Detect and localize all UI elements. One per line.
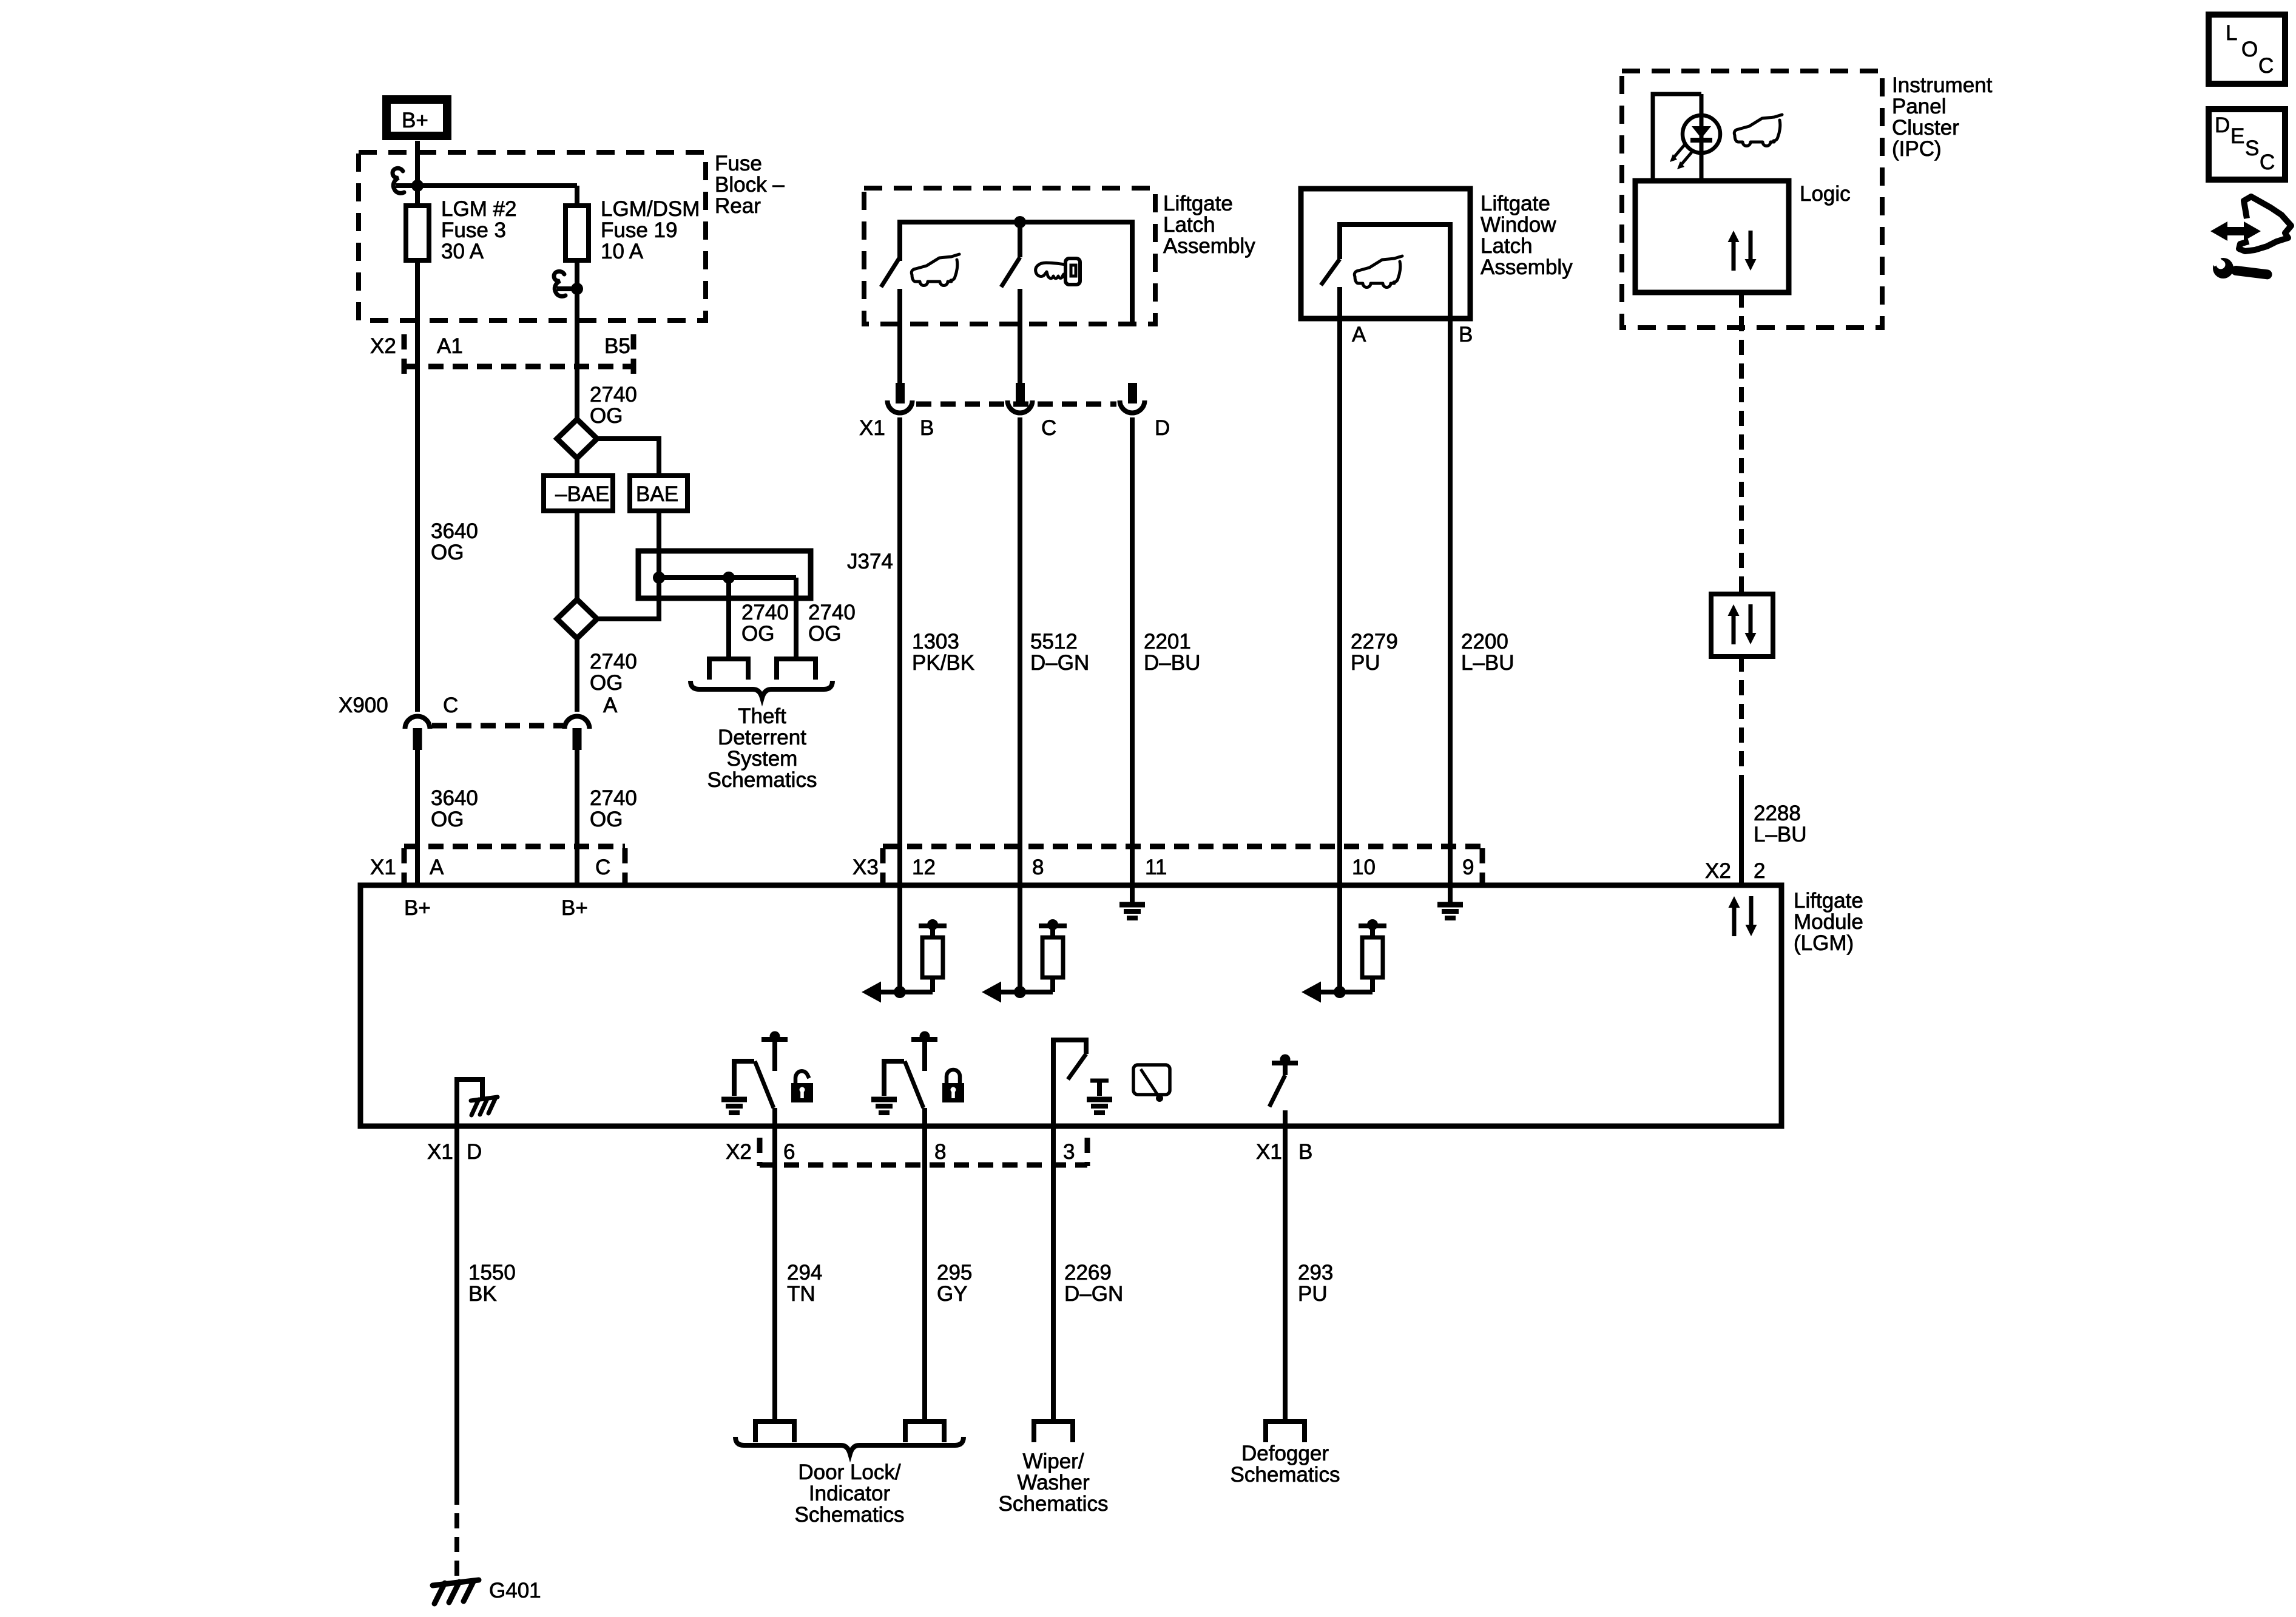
LED indicator wire [1700,94,1704,181]
svg-text:Rear: Rear [715,194,761,218]
padlock open icon [791,1071,813,1102]
DESC icon box [2209,109,2285,180]
wire 295 GY [922,1126,927,1422]
svg-text:Latch: Latch [1481,234,1533,258]
svg-text:C: C [1041,416,1056,440]
latch male blade D [1128,383,1137,403]
hatched chassis ground internal [471,1097,498,1115]
X3 dash separator right [1480,848,1485,883]
wire pin 9 internal ground stub [1448,885,1453,902]
svg-text:TN: TN [787,1282,815,1306]
svg-text:Indicator: Indicator [809,1482,891,1505]
wire fuse 19 vertical [575,186,579,320]
wire 2279 PU [1337,319,1342,885]
svg-text:2: 2 [1754,859,1765,883]
J374 internal bus [659,575,796,580]
splice S2 diamond [557,599,597,638]
svg-text:D: D [2215,113,2230,137]
wire 2200 L-BU [1448,319,1453,885]
internal ground path at pin D [457,1079,482,1126]
svg-text:PU: PU [1298,1282,1328,1306]
window switch lower contact wire [1337,287,1342,319]
svg-text:Fuse 3: Fuse 3 [441,218,506,242]
svg-text:C: C [595,856,610,879]
svg-text:L–BU: L–BU [1754,823,1807,846]
BAE box [630,476,687,511]
tap wire to fuse 19 [396,183,577,188]
svg-text:2200: 2200 [1461,630,1508,653]
svg-text:B: B [1298,1140,1312,1164]
lock switch common wire [922,1108,927,1126]
car icon latch [911,254,959,286]
svg-text:Module: Module [1794,910,1863,934]
wire through fuse 3 [415,186,420,320]
wiper park switch blade [1068,1054,1086,1079]
X2 bottom dash separator right [1085,1138,1090,1166]
wire pin 8 internal [1018,885,1022,992]
svg-text:B: B [1459,323,1473,346]
wiper park ground contact [1090,1079,1109,1083]
svg-text:293: 293 [1298,1261,1333,1284]
svg-text:3640: 3640 [431,786,478,810]
svg-text:A: A [603,694,618,717]
wire pin 11 internal ground stub [1130,885,1135,902]
latch female cup D [1120,400,1145,413]
terminator 295 [905,1422,944,1442]
wiper park switch hook [1053,1040,1086,1126]
svg-text:X3: X3 [853,856,879,879]
tap stub to fuse 19 wire [557,286,577,291]
svg-text:(IPC): (IPC) [1892,137,1942,161]
wire 5512 D-GN [1018,417,1022,885]
wire -BAE to splice S2 [575,511,579,601]
svg-text:Washer: Washer [1017,1471,1090,1494]
svg-text:Deterrent: Deterrent [718,726,806,749]
logic up/down arrows [1728,231,1757,271]
svg-text:Schematics: Schematics [707,768,817,792]
svg-text:BK: BK [468,1282,497,1306]
driver channel pin 10 [1302,919,1386,1003]
wire 2740 OG X900 to LGM X1-C [575,748,579,885]
X1 dash separator left [402,848,407,883]
svg-text:X1: X1 [859,416,885,440]
wrench icon [2230,265,2272,280]
unlock switch common wire [772,1108,777,1126]
svg-text:X2: X2 [370,334,396,358]
svg-text:OG: OG [741,622,774,646]
svg-text:(LGM): (LGM) [1794,931,1854,955]
-BAE box [544,476,613,511]
svg-text:Defogger: Defogger [1241,1442,1329,1465]
liftgate module LGM box [360,885,1781,1126]
wire 2740 OG drop 2 from J374 [794,578,799,659]
terminator 2269 [1034,1422,1073,1442]
svg-text:2740: 2740 [590,650,637,673]
diagnostic double arrow [2210,221,2261,241]
svg-text:Schematics: Schematics [999,1492,1109,1516]
wire pin 12 internal [897,885,902,992]
LED cathode bar [1690,138,1712,143]
wire 3640 OG from fuse 3 to X900 [415,320,420,712]
diagnostic outline icon [2239,197,2291,251]
terminator to theft deterrent 2 [777,659,815,680]
wire 1550 dashed to G401 [454,1490,459,1581]
X2 connector dashed line [404,364,633,370]
wire pin 10 internal [1337,885,1342,992]
svg-text:1303: 1303 [912,630,959,653]
wire 293 PU [1283,1126,1288,1422]
wire 2201 D-BU [1130,417,1135,885]
svg-text:9: 9 [1462,856,1474,879]
svg-text:Instrument: Instrument [1892,73,1993,97]
svg-text:B5: B5 [604,334,630,358]
LED light arrows [1674,145,1684,157]
latch internal bus [900,222,1132,324]
car icon window latch [1354,256,1402,288]
key cylinder switch blade [1001,257,1020,287]
serial data box [1711,594,1773,657]
svg-text:E: E [2230,124,2244,148]
wire S1 right branch to BAE [597,439,659,476]
bus tap hook below fuse 19 [554,271,566,296]
svg-text:Wiper/: Wiper/ [1022,1450,1084,1473]
LED diode triangle [1692,126,1711,138]
svg-text:L: L [2226,21,2237,45]
driver channel pin 12 [862,919,947,1003]
X900 female cup C [405,716,430,729]
svg-text:Latch: Latch [1163,213,1215,237]
unlock switch supply contact [761,1037,788,1042]
svg-text:10: 10 [1352,856,1376,879]
svg-text:11: 11 [1145,856,1167,879]
bus tap hook at fuse 3 feed [393,168,404,193]
svg-text:Theft: Theft [738,704,786,728]
junction J374 left [653,572,665,584]
svg-text:1550: 1550 [468,1261,516,1284]
svg-text:B+: B+ [404,896,431,920]
svg-text:2288: 2288 [1754,802,1801,825]
key cylinder switch contact [1018,222,1022,257]
X900 female cup A [565,716,590,729]
padlock closed icon [942,1070,964,1102]
latch male blade B [896,383,905,403]
ground G401 [433,1580,479,1604]
X2 bottom dash separator left [757,1138,763,1166]
serial data wire dashed upper [1739,292,1744,594]
liftgate latch assembly dashed box [864,188,1155,324]
svg-text:Window: Window [1481,213,1556,237]
key icon [1036,258,1080,285]
LED circle [1683,115,1720,153]
svg-text:30 A: 30 A [441,240,484,263]
wire 2740 OG drop 1 from J374 [726,578,731,659]
latch connector dashed line [916,402,1116,407]
svg-text:C: C [2258,54,2274,78]
wire 1303 PK/BK [897,417,902,885]
svg-text:X1: X1 [370,856,396,879]
ground pin 11 [1119,905,1145,918]
svg-text:2279: 2279 [1351,630,1398,653]
window latch inner frame [1340,224,1450,319]
liftgate window latch assembly box [1301,189,1470,319]
J374 splice pack box [638,551,811,598]
svg-text:B: B [920,416,934,440]
LED indicator frame [1653,94,1701,181]
svg-text:BAE: BAE [636,482,678,506]
svg-text:S: S [2245,137,2259,160]
svg-text:D–GN: D–GN [1030,651,1089,675]
logic box [1635,181,1789,292]
X3 dashed line [883,844,1482,849]
svg-text:LGM/DSM: LGM/DSM [601,197,700,221]
X2 dash separator left [402,334,407,375]
svg-text:2740: 2740 [590,383,637,407]
svg-text:X1: X1 [427,1140,453,1164]
svg-text:12: 12 [912,856,936,879]
svg-text:LGM #2: LGM #2 [441,197,517,221]
svg-text:Schematics: Schematics [1231,1463,1340,1487]
terminator 293 [1266,1422,1305,1442]
svg-text:2269: 2269 [1064,1261,1112,1284]
svg-text:D: D [467,1140,482,1164]
fuse LGM/DSM Fuse 19 10 A [566,206,589,260]
terminator to theft deterrent 1 [709,659,748,680]
svg-text:2201: 2201 [1144,630,1191,653]
wire 2288 L-BU [1739,784,1744,885]
svg-text:10 A: 10 A [601,240,644,263]
unlock switch blade [755,1061,774,1108]
wire 2740 OG from fuse 19 to splice [575,320,579,420]
lock switch ground contact [884,1061,904,1096]
key switch lower contact wire [1018,289,1022,384]
svg-text:PK/BK: PK/BK [912,651,974,675]
svg-text:O: O [2241,38,2258,61]
svg-text:3640: 3640 [431,519,478,543]
LOC icon box [2209,15,2285,84]
fuse block - rear dashed box [359,152,706,320]
driver channel pin 8 [982,919,1067,1003]
svg-text:Schematics: Schematics [795,1503,905,1527]
wire from B+ into fuse block [415,141,420,186]
svg-text:C: C [443,694,458,717]
svg-text:Fuse: Fuse [715,152,762,175]
svg-text:OG: OG [590,808,623,831]
svg-text:OG: OG [431,808,464,831]
wire BAE branch to S2 [597,578,659,619]
instrument panel cluster dashed box [1622,71,1882,328]
svg-text:B+: B+ [402,109,428,132]
svg-text:Assembly: Assembly [1481,255,1573,279]
X900 dashed line [432,723,563,729]
wiper icon [1133,1065,1170,1095]
svg-text:B+: B+ [561,896,588,920]
serial data wire dashed lower [1739,657,1744,784]
svg-text:X2: X2 [726,1140,752,1164]
svg-text:Logic: Logic [1800,182,1851,206]
svg-text:3: 3 [1063,1140,1075,1164]
svg-text:OG: OG [808,622,841,646]
liftgate ajar switch [881,257,900,287]
latch male blade C [1016,383,1025,403]
svg-text:294: 294 [787,1261,822,1284]
svg-text:A1: A1 [437,334,463,358]
svg-text:8: 8 [934,1140,946,1164]
unlock switch ground contact [734,1061,754,1096]
svg-text:X900: X900 [339,694,388,717]
lock switch supply contact [911,1037,937,1042]
ground pin 9 [1437,905,1463,918]
junction J374 mid [723,572,735,584]
junction below fuse 19 [571,283,583,295]
latch female cup C [1008,400,1033,413]
svg-text:D–GN: D–GN [1064,1282,1123,1306]
wire 294 TN [772,1126,777,1422]
svg-text:–BAE: –BAE [555,482,610,506]
wire BAE down into J374 [657,511,661,578]
svg-text:Panel: Panel [1892,95,1947,118]
svg-text:D–BU: D–BU [1144,651,1200,675]
svg-text:L–BU: L–BU [1461,651,1514,675]
brace door lock [735,1437,964,1454]
svg-text:Block –: Block – [715,173,785,197]
splice S1 diamond [557,419,597,458]
svg-text:2740: 2740 [741,601,789,624]
lock switch blade [905,1061,923,1108]
defogger switch common wire [1283,1110,1288,1126]
svg-text:GY: GY [937,1282,968,1306]
terminator 294 [755,1422,794,1442]
window ajar switch blade [1321,259,1340,285]
svg-text:2740: 2740 [590,786,637,810]
LGM up/down arrows at pin 2 [1729,896,1757,936]
svg-text:Liftgate: Liftgate [1794,889,1863,913]
X2 bottom dashed line [760,1163,1087,1168]
serial box up/down arrows [1728,604,1757,644]
wire 1550 BK [454,1126,459,1490]
car icon IPC [1734,115,1782,146]
svg-text:5512: 5512 [1030,630,1078,653]
svg-text:Door Lock/: Door Lock/ [798,1460,901,1484]
junction latch bus [1014,216,1026,228]
svg-text:OG: OG [590,671,623,695]
svg-text:OG: OG [431,541,464,564]
latch female cup B [888,400,913,413]
wire S1 to -BAE [575,458,579,476]
svg-text:8: 8 [1032,856,1044,879]
svg-text:Fuse 19: Fuse 19 [601,218,677,242]
wire 2269 D-GN [1051,1126,1056,1422]
wire 3640 OG X900 to LGM X1-A [415,748,420,885]
svg-text:C: C [2260,150,2275,174]
defogger switch blade [1269,1075,1285,1107]
svg-text:Liftgate: Liftgate [1481,192,1550,215]
X2 dash separator right [631,334,636,375]
liftgate ajar switch lower contact wire [897,289,902,384]
svg-text:Liftgate: Liftgate [1163,192,1233,215]
svg-text:Cluster: Cluster [1892,116,1959,140]
fuse LGM #2 Fuse 3 30 A [406,206,429,260]
junction at fuse 3 wire [411,180,424,192]
svg-text:PU: PU [1351,651,1380,675]
X900 male blade C [413,728,422,750]
wire S2 to X900 [575,638,579,712]
svg-text:G401: G401 [489,1579,541,1602]
X900 male blade A [573,728,582,750]
X3 dash separator left [880,848,886,883]
svg-text:A: A [1352,323,1366,346]
B+ power terminal [387,100,447,136]
svg-text:OG: OG [590,404,623,428]
svg-text:D: D [1155,416,1170,440]
defogger switch supply contact [1272,1061,1298,1065]
svg-text:2740: 2740 [808,601,856,624]
svg-text:A: A [430,856,444,879]
X1 dash separator right [623,848,628,883]
X1 dashed line [404,844,625,849]
svg-text:X2: X2 [1705,859,1731,883]
svg-text:J374: J374 [847,550,893,573]
svg-text:Assembly: Assembly [1163,234,1255,258]
brace theft deterrent [690,681,832,698]
svg-text:295: 295 [937,1261,972,1284]
svg-text:6: 6 [783,1140,795,1164]
svg-text:System: System [727,747,798,771]
svg-text:X1: X1 [1256,1140,1282,1164]
